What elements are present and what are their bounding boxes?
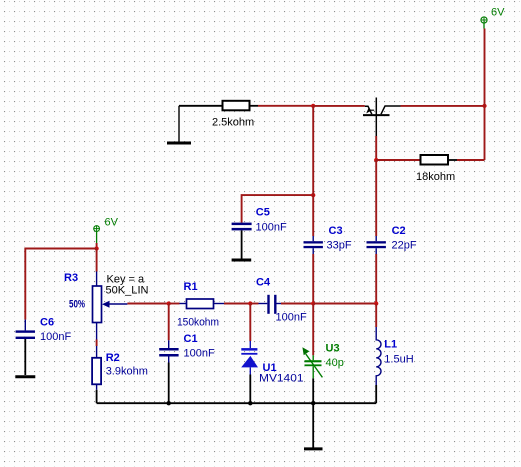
- ground (left of 2.5kohm): [167, 106, 191, 143]
- wire C3 node to C2 node: [313, 303, 376, 305]
- svg-text:40p: 40p: [326, 357, 344, 369]
- wire U3 bottom to bus: [312, 378, 314, 403]
- junction C5 wire / column A: [311, 193, 315, 197]
- wire node A to transistor emitter: [313, 105, 365, 107]
- resistor R1 body: [187, 299, 214, 309]
- capacitor C1: [159, 348, 178, 357]
- wire C4 to C3 node: [281, 303, 313, 305]
- pin 18kohm right: [448, 159, 457, 161]
- wire 18kohm to right rail: [457, 159, 485, 161]
- wire C3 node down to U3: [312, 304, 314, 356]
- svg-text:50K_LIN: 50K_LIN: [106, 285, 149, 297]
- capacitor C4: [267, 295, 276, 314]
- pin C4 left: [259, 303, 268, 305]
- wire node A down to C3: [312, 106, 314, 236]
- junction left rail: [94, 246, 98, 250]
- junction bus/U3: [311, 401, 315, 405]
- svg-text:6V: 6V: [105, 217, 119, 229]
- R3 wiper arrow: [102, 301, 110, 308]
- wire R1 to U1 node: [224, 303, 250, 305]
- svg-text:C2: C2: [392, 225, 406, 237]
- junction base node: [374, 158, 378, 162]
- svg-text:100nF: 100nF: [276, 311, 307, 323]
- ground (bottom): [312, 403, 314, 449]
- junction C3/U3 node: [311, 301, 315, 305]
- svg-text:2.5kohm: 2.5kohm: [212, 117, 254, 129]
- pin R3 top: [96, 272, 98, 287]
- wire wiper to R1 node: [127, 303, 168, 305]
- resistor R2 body: [92, 358, 101, 385]
- pin C3 bottom + wire to main row: [312, 248, 314, 254]
- pin R1 right: [214, 303, 225, 305]
- svg-text:6V: 6V: [491, 7, 505, 19]
- junction bus/C1: [167, 401, 171, 405]
- svg-text:100nF: 100nF: [184, 348, 215, 360]
- svg-text:1.5uH: 1.5uH: [384, 353, 413, 365]
- svg-text:C1: C1: [184, 333, 198, 345]
- capacitor C5: [232, 223, 252, 231]
- wire bottom bus: [97, 402, 377, 404]
- ground (below C6): [15, 375, 35, 378]
- resistor 18kohm body: [421, 155, 449, 165]
- pin C2 bottom + wire to main row: [375, 248, 377, 254]
- pin R3 bottom: [96, 323, 98, 340]
- pin 2.5kohm right: [250, 105, 259, 107]
- capacitor C6: [16, 330, 35, 339]
- svg-text:R2: R2: [106, 352, 120, 364]
- pin C3 top: [312, 236, 314, 241]
- svg-text:C4: C4: [256, 277, 271, 289]
- wire base node down to C2: [375, 160, 377, 236]
- wire C5 top (corner) to node A column: [242, 195, 314, 223]
- variable capacitor U3 (green): [305, 360, 322, 366]
- pin R1 left: [180, 303, 187, 305]
- svg-text:C3: C3: [329, 225, 343, 237]
- wire C1 bottom to bus: [168, 363, 170, 404]
- wire node to R1: [169, 303, 180, 305]
- pin C6 top: [24, 320, 26, 331]
- wire 6V left down to junction: [96, 243, 98, 249]
- U3 arrow: [306, 354, 323, 377]
- ground (below C5): [232, 259, 252, 262]
- pin C4 right: [277, 303, 283, 305]
- svg-text:U3: U3: [326, 342, 340, 354]
- wire C6 bottom to ground: [24, 339, 26, 375]
- pin C1 top: [168, 340, 170, 348]
- svg-text:R1: R1: [184, 281, 198, 293]
- wire node down to C1: [168, 304, 170, 341]
- capacitor C2: [367, 241, 386, 248]
- svg-text:L1: L1: [384, 339, 397, 351]
- junction at right rail / collector: [482, 104, 486, 108]
- svg-text:100nF: 100nF: [40, 331, 71, 343]
- power VCC 6V (left): [94, 226, 100, 243]
- svg-text:50%: 50%: [69, 299, 85, 311]
- wire junction down to R3: [96, 249, 98, 272]
- junction U1 node: [248, 301, 252, 305]
- junction R1 left node: [167, 301, 171, 305]
- wire U1 node to C4: [250, 303, 258, 305]
- wire R3 to R2: [96, 340, 98, 347]
- wire U1 bottom to bus: [249, 375, 251, 404]
- pin R2 bottom: [96, 384, 98, 390]
- svg-text:150kohm: 150kohm: [177, 317, 219, 329]
- node A junction: [311, 104, 315, 108]
- junction bus/U1: [248, 401, 252, 405]
- wire base node to 18kohm: [376, 159, 420, 161]
- wire ground to R 2.5kohm: [179, 105, 222, 107]
- svg-text:R3: R3: [64, 272, 78, 284]
- pin R2 top: [96, 346, 98, 358]
- svg-text:100nF: 100nF: [256, 222, 287, 234]
- wire C2 node down to L1: [375, 304, 377, 328]
- transistor Q1 (PNP, rotated): [363, 98, 401, 137]
- wire base down: [375, 136, 377, 160]
- pin C2 top: [375, 236, 377, 241]
- svg-text:18kohm: 18kohm: [416, 171, 455, 183]
- wire C5 bottom to ground: [241, 230, 243, 258]
- wire U1 node down: [249, 304, 251, 342]
- svg-text:33pF: 33pF: [327, 240, 352, 252]
- svg-text:3.9kohm: 3.9kohm: [106, 366, 148, 378]
- transistor emitter arrow: [366, 108, 371, 114]
- pin C1 bottom: [168, 357, 170, 363]
- capacitor C3: [304, 241, 323, 248]
- varactor U1 (diode + cathode bars): [241, 348, 258, 367]
- svg-text:C6: C6: [40, 316, 54, 328]
- wire 6V rail down: [484, 29, 486, 161]
- junction C2/L1 node: [374, 301, 378, 305]
- resistor 2.5kohm body: [223, 101, 250, 111]
- wire junction to C6: [25, 249, 96, 320]
- svg-text:22pF: 22pF: [392, 240, 417, 252]
- wire collector to right rail: [401, 105, 485, 107]
- power VCC 6V (top right): [481, 17, 487, 29]
- svg-text:MV1401: MV1401: [259, 373, 304, 385]
- wire 2.5kohm to node A: [258, 105, 313, 107]
- inductor L1: [376, 327, 381, 385]
- svg-text:C5: C5: [256, 207, 270, 219]
- wire R2 bottom to bus: [96, 390, 98, 403]
- wire L1 bottom to bus corner: [375, 385, 377, 403]
- potentiometer R3 body: [93, 286, 102, 323]
